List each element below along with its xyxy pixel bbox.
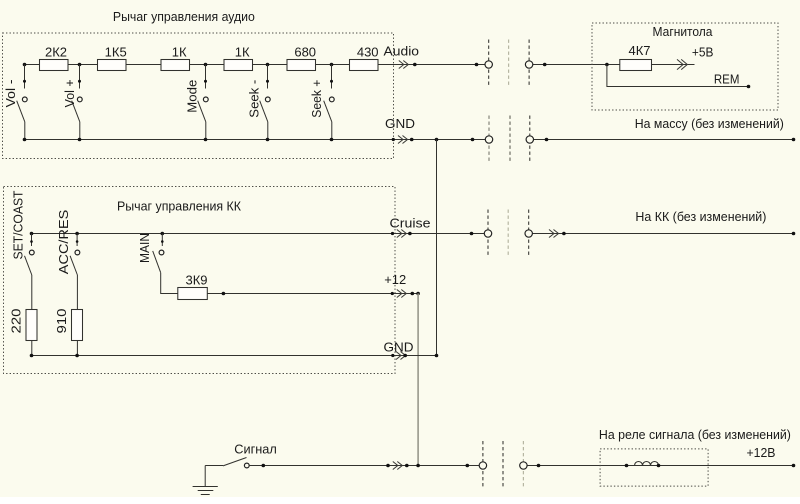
junction: audio after connector — [543, 63, 547, 67]
resistor 1K (b) — [224, 60, 253, 71]
connector pin: GND left — [485, 116, 492, 164]
resistor 2K2 — [40, 60, 69, 71]
wire: cruise GND bus — [32, 355, 437, 357]
resistor 4K7 — [620, 60, 652, 71]
switch MAIN — [153, 232, 178, 294]
resistor 910 — [72, 310, 83, 341]
svg-text:GND: GND — [384, 340, 414, 355]
ground symbol — [193, 466, 218, 495]
junction: GND at box edge — [392, 138, 395, 141]
resistor 1K5 — [98, 60, 127, 71]
chevron: +5V — [677, 59, 687, 69]
wire: REM branch — [607, 65, 749, 87]
dashed box: audio control lever — [3, 33, 394, 159]
connector pin: signal right (gray dashes) — [520, 441, 527, 489]
connector pin: audio left — [485, 40, 492, 88]
svg-text:REM: REM — [714, 72, 740, 87]
svg-text:Рычаг управления аудио: Рычаг управления аудио — [113, 10, 255, 24]
wire: cruise to KK (right) — [532, 233, 793, 235]
resistor 680 — [287, 60, 316, 71]
wire: audio GND bus — [25, 139, 486, 141]
junction: end of KK line — [792, 232, 796, 236]
junction: +12 after chevron — [411, 292, 415, 296]
junction: GND after chevron — [410, 138, 414, 142]
switch SET/COAST — [25, 232, 35, 310]
junction: before signal connector — [466, 464, 470, 468]
junction: end of relay line — [792, 464, 796, 468]
svg-text:1К: 1К — [172, 44, 187, 59]
svg-text:ACC/RES: ACC/RES — [56, 210, 71, 275]
svg-text:220: 220 — [9, 309, 24, 334]
switch ACC/RES — [70, 232, 80, 310]
wire: audio bus (top) — [25, 64, 486, 66]
svg-text:3К9: 3К9 — [185, 273, 207, 288]
resistor 430 — [350, 60, 379, 71]
connector separator: signal (dark) — [502, 441, 504, 489]
svg-text:Vol -: Vol - — [3, 79, 18, 107]
svg-text:SET/COAST: SET/COAST — [10, 190, 25, 259]
switch Vol+ — [72, 63, 83, 142]
junction: GND2 link corner — [435, 354, 439, 358]
wire: GND to radio (На массу) — [534, 139, 794, 141]
junction: GND link to cruise section — [435, 138, 439, 142]
svg-text:Магнитола: Магнитола — [653, 25, 713, 39]
chevron: cruise out — [397, 230, 407, 238]
chevron: to KK — [549, 230, 559, 238]
junction: cruise before connector — [470, 232, 474, 236]
junction: GND2 left — [30, 354, 34, 358]
junction: cruise at box edge — [391, 232, 394, 235]
resistor 3K9 — [178, 288, 208, 300]
dashed box: cruise control lever — [4, 187, 396, 374]
switch: signal (horn) — [223, 458, 249, 468]
svg-text:680: 680 — [294, 44, 316, 59]
svg-text:4К7: 4К7 — [628, 43, 650, 58]
svg-text:430: 430 — [357, 44, 379, 59]
connector pin: GND right — [526, 116, 533, 164]
dashed box: horn relay — [600, 449, 708, 486]
junction: GND before connector — [471, 138, 475, 142]
svg-text:2К2: 2К2 — [45, 44, 67, 59]
svg-text:На КК (без изменений): На КК (без изменений) — [635, 209, 766, 224]
svg-text:Vol +: Vol + — [62, 79, 77, 107]
junction: REM end — [747, 85, 751, 89]
chevron: GND out — [398, 136, 408, 144]
wire: audio bus right of connector — [533, 64, 620, 66]
wire: 910 to GND — [76, 340, 78, 355]
junction: +12 feed joins signal — [416, 464, 420, 468]
junction: after signal chevron — [405, 464, 409, 468]
junction: before signal chevron — [386, 464, 390, 468]
junction: after 3K9 — [222, 292, 226, 296]
junction: +12 corner — [416, 292, 420, 296]
svg-text:Mode: Mode — [184, 80, 199, 113]
junction: radio input node — [605, 63, 609, 67]
svg-text:GND: GND — [385, 116, 415, 131]
resistor 220 — [26, 310, 37, 341]
chevron: signal — [393, 462, 403, 470]
junction: GND2 at 910 — [75, 354, 79, 358]
svg-text:Рычаг управления КК: Рычаг управления КК — [117, 200, 242, 214]
chevron: audio out — [399, 61, 409, 69]
switch Vol- — [17, 63, 28, 142]
svg-text:Сигнал: Сигнал — [234, 442, 276, 457]
junction: relay coil right — [657, 464, 661, 468]
connector pin: cruise right — [525, 210, 532, 258]
svg-text:Cruise: Cruise — [390, 216, 431, 231]
svg-text:На массу (без изменений): На массу (без изменений) — [635, 116, 784, 131]
switch Seek+ — [324, 63, 334, 142]
switch Mode — [198, 63, 209, 142]
wire: signal line right of connector — [527, 465, 793, 467]
wire: +12 vertical (gray) to horn — [417, 294, 419, 466]
junction: GND after connector — [545, 138, 549, 142]
connector pin: signal left — [479, 441, 486, 489]
connector separator: GND — [509, 116, 511, 164]
inductor: relay coil — [635, 462, 659, 466]
junction: audio after chevron — [413, 63, 417, 67]
connector pin: cruise left — [484, 210, 491, 258]
connector separator: cruise — [507, 210, 509, 258]
svg-text:MAIN: MAIN — [137, 233, 152, 263]
svg-text:На реле сигнала (без изменений: На реле сигнала (без изменений) — [599, 427, 791, 442]
junction: KK line — [562, 232, 566, 236]
connector separator: audio — [508, 40, 510, 88]
svg-text:1К: 1К — [235, 44, 250, 59]
svg-text:+5В: +5В — [692, 45, 714, 60]
svg-text:1К5: 1К5 — [105, 44, 127, 59]
wire: ground to signal switch — [205, 465, 223, 467]
junction: audio before connector — [475, 63, 479, 67]
chevron: GND2 out — [396, 352, 406, 360]
chevron: +12 out — [397, 290, 407, 298]
switch Seek- — [260, 63, 270, 142]
wire: +12 line — [207, 293, 418, 295]
svg-text:+12В: +12В — [747, 445, 776, 460]
wire: 220 to GND — [31, 340, 33, 355]
svg-text:+12: +12 — [384, 272, 406, 287]
svg-text:Audio: Audio — [384, 44, 420, 59]
svg-text:910: 910 — [54, 309, 69, 334]
svg-text:Seek -: Seek - — [247, 80, 262, 118]
wire: GND vertical link — [436, 140, 438, 356]
junction: end of GND line — [792, 138, 796, 142]
junction: +12 at box edge — [391, 292, 394, 295]
wire: signal line — [249, 465, 479, 467]
connector pin: audio right — [525, 40, 532, 88]
junction: GND2 at box edge — [391, 354, 394, 357]
junction: after signal switch — [262, 464, 266, 468]
wire: 4K7 to +5V — [652, 64, 695, 66]
resistor 1K (a) — [161, 60, 190, 71]
dashed box: Магнитола (radio) — [592, 23, 778, 110]
wire: cruise bus — [32, 233, 485, 235]
junction: relay coil left — [625, 464, 629, 468]
junction: after signal connector — [537, 464, 541, 468]
junction: cruise after chevron — [408, 232, 412, 236]
svg-text:Seek +: Seek + — [309, 80, 324, 118]
junction: GND2 after chevron — [403, 354, 407, 358]
